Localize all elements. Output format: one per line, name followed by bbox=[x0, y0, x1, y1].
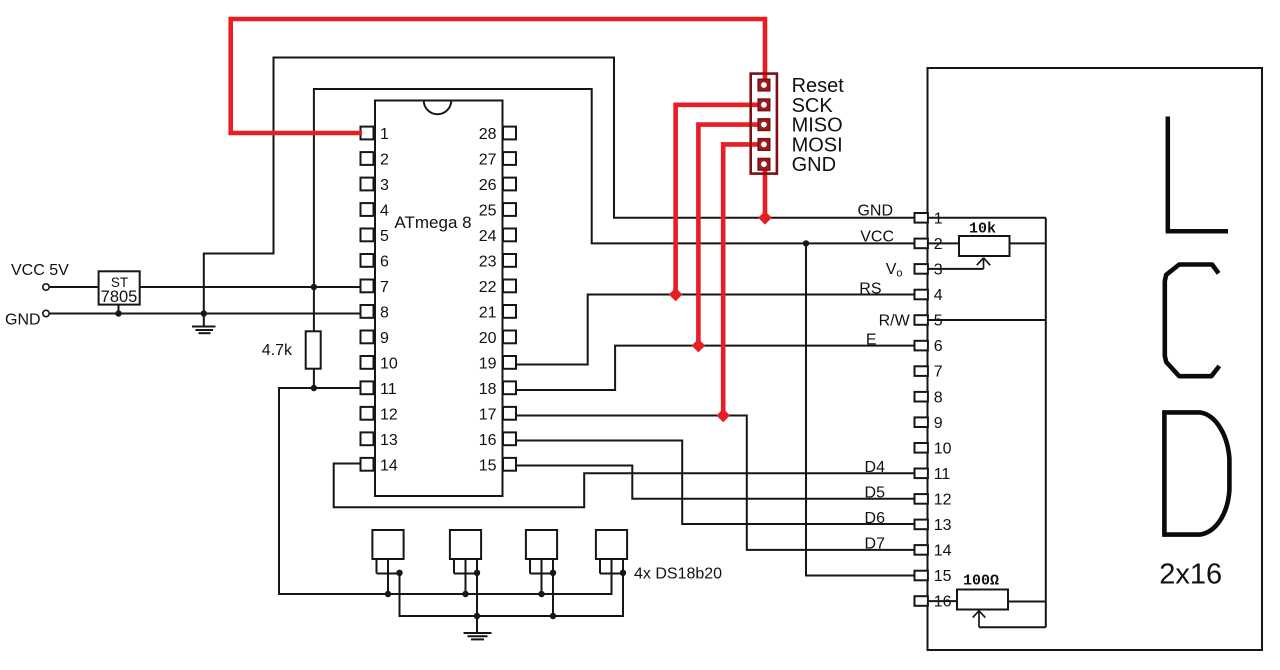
svg-text:10k: 10k bbox=[969, 221, 996, 238]
node junction VCC pin7 bbox=[311, 284, 317, 290]
ISP header J1 bbox=[751, 74, 777, 174]
terminal GND bbox=[43, 310, 49, 316]
svg-text:GND: GND bbox=[792, 154, 836, 176]
LCD letter D bbox=[1162, 410, 1229, 536]
node junction 7805 gnd bbox=[115, 310, 121, 316]
wire 4.7k top bbox=[313, 287, 315, 331]
svg-text:Reset: Reset bbox=[792, 75, 845, 97]
LCD letter C bbox=[1165, 265, 1220, 377]
svg-text:20: 20 bbox=[479, 330, 497, 347]
svg-text:26: 26 bbox=[479, 177, 497, 194]
wire VCC drop to LCD pin15 bbox=[806, 243, 915, 575]
svg-text:6: 6 bbox=[934, 338, 943, 355]
voltage regulator U2 ST 7805 bbox=[99, 271, 140, 304]
svg-text:E: E bbox=[866, 332, 877, 349]
svg-text:13: 13 bbox=[380, 432, 398, 449]
potentiometer P2 100ohm bbox=[957, 590, 1008, 610]
potentiometer P2 wiper arrow bbox=[973, 611, 986, 628]
svg-text:23: 23 bbox=[479, 254, 497, 271]
svg-text:18: 18 bbox=[479, 381, 497, 398]
potentiometer P1 10k bbox=[959, 236, 1010, 256]
LCD letter L bbox=[1166, 117, 1228, 232]
svg-text:2: 2 bbox=[380, 152, 389, 169]
svg-text:7805: 7805 bbox=[101, 288, 138, 306]
wire pin14 to LCD D4 bbox=[334, 464, 915, 508]
LCD module box bbox=[928, 68, 1263, 650]
svg-text:R/W: R/W bbox=[879, 313, 911, 330]
svg-text:21: 21 bbox=[479, 305, 497, 322]
svg-text:28: 28 bbox=[479, 126, 497, 143]
svg-text:2x16: 2x16 bbox=[1159, 559, 1222, 591]
svg-text:100Ω: 100Ω bbox=[963, 573, 999, 590]
svg-text:GND: GND bbox=[857, 203, 893, 220]
wire ISP gnd red bbox=[763, 164, 768, 218]
wire pin19 to LCD RS bbox=[515, 295, 916, 365]
svg-text:VCC: VCC bbox=[860, 228, 894, 245]
wire ground stem sensors bbox=[476, 574, 478, 634]
resistor R1 4.7k bbox=[306, 331, 321, 368]
ISP header pin SCK bbox=[758, 99, 770, 111]
svg-text:7: 7 bbox=[934, 364, 943, 381]
svg-text:17: 17 bbox=[479, 407, 497, 424]
wire 7805 output to pin7 bbox=[140, 286, 361, 288]
svg-text:MOSI: MOSI bbox=[792, 134, 843, 156]
wire GND input to pin8 bbox=[50, 313, 362, 315]
svg-text:VCC 5V: VCC 5V bbox=[11, 262, 69, 279]
svg-text:27: 27 bbox=[479, 152, 497, 169]
svg-text:11: 11 bbox=[380, 381, 397, 398]
ISP header pin GND bbox=[758, 159, 770, 171]
svg-text:2: 2 bbox=[934, 236, 943, 253]
svg-text:22: 22 bbox=[479, 279, 497, 296]
wire pin16 to LCD D6 bbox=[515, 441, 916, 525]
svg-text:25: 25 bbox=[479, 203, 497, 220]
svg-text:8: 8 bbox=[380, 305, 389, 322]
temperature sensor S4 DS18b20 bbox=[596, 530, 627, 594]
temperature sensor S2 DS18b20 bbox=[450, 530, 481, 594]
ISP labels bbox=[792, 75, 845, 176]
svg-text:ATmega 8: ATmega 8 bbox=[394, 213, 471, 232]
svg-text:14: 14 bbox=[380, 458, 398, 475]
node red junction MISO bbox=[692, 339, 706, 353]
ISP header pin MOSI bbox=[758, 139, 770, 151]
svg-text:4: 4 bbox=[934, 287, 943, 304]
node junctions sensor data bus bbox=[385, 591, 391, 597]
IC U1 pin squares left 1-14 bbox=[361, 127, 374, 471]
svg-text:4.7k: 4.7k bbox=[262, 342, 293, 359]
svg-text:9: 9 bbox=[380, 330, 389, 347]
node red junction ISP gnd bbox=[758, 211, 772, 225]
node junction 4.7k pin11 bbox=[311, 385, 317, 391]
ISP header pin MISO bbox=[758, 119, 770, 130]
LCD signal labels bbox=[857, 203, 910, 553]
svg-text:SCK: SCK bbox=[792, 95, 834, 117]
svg-text:12: 12 bbox=[934, 492, 952, 509]
svg-text:D6: D6 bbox=[865, 510, 886, 527]
svg-text:19: 19 bbox=[479, 356, 497, 373]
node junction gnd symbol bbox=[201, 310, 207, 316]
wire pin18 to LCD E bbox=[515, 346, 916, 390]
wire pin11 to DS18b20 data bus bbox=[279, 388, 612, 594]
svg-text:1: 1 bbox=[934, 211, 943, 228]
svg-text:15: 15 bbox=[479, 458, 497, 475]
svg-text:D5: D5 bbox=[865, 484, 886, 501]
wire DS18b20 ground bus bbox=[400, 574, 624, 617]
svg-text:15: 15 bbox=[934, 568, 952, 585]
svg-text:10: 10 bbox=[934, 440, 952, 457]
svg-text:8: 8 bbox=[934, 389, 943, 406]
LCD inner gnd bus bbox=[928, 218, 1046, 628]
svg-text:MISO: MISO bbox=[792, 115, 843, 137]
svg-text:4x DS18b20: 4x DS18b20 bbox=[634, 566, 722, 583]
svg-text:7: 7 bbox=[380, 279, 389, 296]
svg-text:14: 14 bbox=[934, 543, 952, 560]
wire pin17 to LCD D7 bbox=[515, 416, 916, 550]
ground symbol near 7805 bbox=[192, 314, 216, 334]
wire GND net to LCD pin1 bbox=[204, 58, 915, 314]
IC U1 ATmega 8 body bbox=[375, 101, 503, 497]
wire VCC net to LCD pin2 bbox=[314, 89, 915, 287]
node junctions sensor pins bbox=[396, 570, 402, 576]
node red junction SCK bbox=[669, 288, 683, 302]
ground symbol sensors bbox=[464, 633, 492, 639]
svg-text:RS: RS bbox=[859, 281, 881, 298]
wire sensor3 ground drop bbox=[552, 574, 554, 617]
svg-text:5: 5 bbox=[380, 228, 389, 245]
wire 4.7k bottom bbox=[313, 369, 315, 388]
node junctions sensor gnd bus bbox=[474, 613, 480, 619]
svg-text:6: 6 bbox=[380, 254, 389, 271]
svg-text:10: 10 bbox=[380, 356, 398, 373]
IC U1 pin numbers right bbox=[479, 126, 497, 475]
wire MISO red bbox=[698, 125, 758, 346]
svg-text:9: 9 bbox=[934, 415, 943, 432]
svg-text:1: 1 bbox=[380, 126, 389, 143]
potentiometer P1 wiper arrow bbox=[977, 258, 990, 269]
IC U1 pin numbers left bbox=[380, 126, 398, 475]
svg-text:16: 16 bbox=[934, 594, 952, 611]
svg-text:12: 12 bbox=[380, 407, 398, 424]
terminal VCC 5V bbox=[43, 284, 49, 290]
LCD pin numbers bbox=[934, 211, 952, 611]
svg-text:13: 13 bbox=[934, 517, 952, 534]
wire pin15 to LCD D5 bbox=[515, 466, 916, 499]
svg-text:24: 24 bbox=[479, 228, 497, 245]
ISP header pin Reset bbox=[758, 79, 770, 91]
wire MOSI red bbox=[723, 144, 758, 415]
svg-text:3: 3 bbox=[934, 262, 943, 279]
node red junction MOSI bbox=[716, 409, 730, 423]
wire SCK red bbox=[676, 105, 758, 295]
svg-text:4: 4 bbox=[380, 203, 389, 220]
svg-text:11: 11 bbox=[934, 466, 951, 483]
svg-text:16: 16 bbox=[479, 432, 497, 449]
svg-text:3: 3 bbox=[380, 177, 389, 194]
node junction VCC LCD bbox=[803, 240, 809, 246]
IC U1 pin squares right 28-15 bbox=[503, 127, 516, 471]
svg-text:D7: D7 bbox=[865, 536, 886, 553]
wire VCC5V input to 7805 bbox=[50, 286, 99, 288]
wire reset red bbox=[231, 19, 765, 133]
wire 7805 ground stub bbox=[118, 305, 120, 314]
temperature sensor S1 DS18b20 bbox=[372, 530, 403, 594]
temperature sensor S3 DS18b20 bbox=[526, 530, 557, 594]
LCD pin squares bbox=[915, 213, 928, 606]
svg-text:D4: D4 bbox=[865, 459, 886, 476]
red programming wires bbox=[231, 19, 765, 416]
svg-text:GND: GND bbox=[5, 312, 41, 329]
